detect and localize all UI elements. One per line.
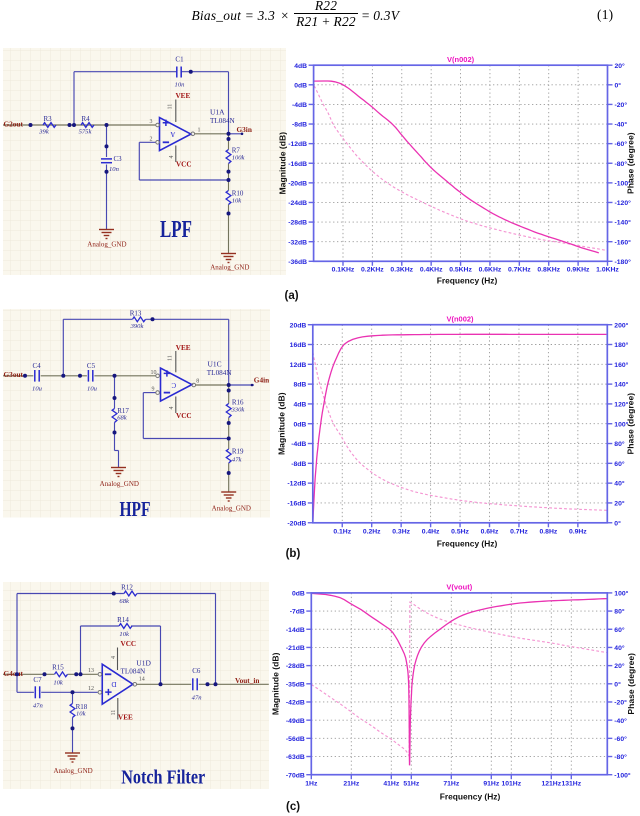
- svg-text:(c): (c): [286, 801, 300, 813]
- svg-text:131Hz: 131Hz: [561, 781, 581, 788]
- svg-text:Analog_GND: Analog_GND: [87, 240, 126, 248]
- svg-text:U1D: U1D: [136, 658, 151, 667]
- wire: R12 top feedback run: [17, 592, 124, 594]
- schematic panel (a) LPF: [3, 48, 286, 275]
- svg-text:Magnitude (dB): Magnitude (dB): [272, 652, 281, 715]
- svg-text:10u: 10u: [32, 386, 43, 393]
- resistor R13 390k: [133, 317, 146, 322]
- svg-text:101Hz: 101Hz: [501, 781, 521, 788]
- svg-text:(b): (b): [286, 548, 301, 560]
- svg-text:G2out: G2out: [4, 120, 24, 128]
- svg-text:1: 1: [197, 128, 200, 134]
- svg-text:R12: R12: [121, 583, 133, 591]
- svg-text:-63dB: -63dB: [286, 754, 305, 761]
- svg-text:0.4Hz: 0.4Hz: [422, 529, 440, 536]
- svg-text:R14: R14: [117, 616, 129, 624]
- svg-text:LPF: LPF: [160, 217, 192, 243]
- svg-text:V(n002): V(n002): [447, 55, 475, 64]
- svg-text:0.6KHz: 0.6KHz: [479, 267, 502, 274]
- bode plot (a) magnitude/phase vs frequency: [272, 52, 640, 304]
- svg-text:-4dB: -4dB: [291, 441, 306, 448]
- svg-text:20dB: 20dB: [290, 322, 307, 329]
- svg-text:-60°: -60°: [614, 735, 627, 743]
- svg-text:11: 11: [111, 709, 117, 715]
- wire: R18 branch: [72, 692, 74, 703]
- resistor R19 47k: [226, 449, 231, 463]
- svg-text:-28dB: -28dB: [288, 220, 307, 227]
- capacitor C4 10u: [34, 370, 36, 382]
- svg-text:0°: 0°: [614, 519, 621, 527]
- svg-text:40°: 40°: [614, 644, 625, 652]
- svg-text:Phase (degree): Phase (degree): [626, 393, 636, 455]
- svg-text:40°: 40°: [614, 480, 625, 488]
- svg-text:68k: 68k: [119, 598, 130, 605]
- svg-text:TL084N: TL084N: [210, 117, 236, 125]
- junction dots: [29, 123, 33, 127]
- svg-text:-16dB: -16dB: [287, 501, 306, 508]
- svg-text:-40°: -40°: [615, 121, 628, 129]
- svg-text:-100°: -100°: [614, 771, 631, 779]
- svg-text:Analog_GND: Analog_GND: [100, 480, 139, 488]
- svg-text:20°: 20°: [614, 662, 625, 670]
- svg-text:80°: 80°: [614, 440, 625, 448]
- svg-text:41Hz: 41Hz: [383, 781, 399, 788]
- svg-text:-80°: -80°: [614, 753, 627, 761]
- svg-text:0.9Hz: 0.9Hz: [569, 529, 587, 536]
- svg-text:G3in: G3in: [236, 126, 251, 134]
- svg-text:4: 4: [169, 407, 175, 410]
- wire: output divider chain: [228, 385, 230, 404]
- op-amp U1C TL084N: [161, 368, 192, 401]
- svg-text:16dB: 16dB: [290, 342, 307, 349]
- svg-text:Phase (degree): Phase (degree): [626, 653, 636, 715]
- svg-text:0.9KHz: 0.9KHz: [567, 267, 590, 274]
- svg-text:G4out: G4out: [4, 669, 24, 678]
- svg-text:Vout_in: Vout_in: [235, 676, 259, 685]
- svg-text:(a): (a): [285, 290, 299, 302]
- svg-text:Analog_GND: Analog_GND: [53, 767, 92, 775]
- svg-text:4dB: 4dB: [294, 63, 307, 70]
- pin 1 output wire: [191, 132, 195, 136]
- svg-text:VCC: VCC: [121, 639, 137, 647]
- svg-text:575k: 575k: [79, 128, 93, 135]
- resistor R7 100k: [226, 149, 231, 163]
- resistor R12 68k: [124, 591, 137, 596]
- svg-text:0.8Hz: 0.8Hz: [540, 529, 558, 536]
- svg-text:-56dB: -56dB: [286, 736, 305, 743]
- svg-text:-180°: -180°: [615, 258, 632, 266]
- capacitor C7 47n: [34, 686, 36, 698]
- pin 4 VCC: [175, 397, 177, 414]
- ground Analog_GND (R18): [65, 753, 80, 762]
- svg-text:68k: 68k: [117, 415, 128, 422]
- pin 8 output wire: [192, 383, 196, 387]
- ground Analog_GND (C3): [99, 229, 114, 238]
- bode plot (c) magnitude/phase vs frequency: [272, 580, 640, 816]
- svg-text:U1A: U1A: [210, 107, 225, 116]
- svg-text:-35dB: -35dB: [286, 681, 305, 688]
- capacitor C1 10n: [176, 66, 178, 77]
- svg-text:47n: 47n: [33, 702, 44, 709]
- svg-text:-32dB: -32dB: [288, 239, 307, 246]
- svg-text:4: 4: [169, 155, 175, 158]
- wire: riser to C1 feedback: [73, 72, 75, 125]
- svg-text:-12dB: -12dB: [288, 141, 307, 148]
- capacitor C6 47n: [192, 678, 194, 690]
- svg-text:C3: C3: [114, 155, 123, 163]
- svg-text:C4: C4: [33, 362, 42, 370]
- svg-text:G3out: G3out: [4, 370, 24, 379]
- svg-text:Notch Filter: Notch Filter: [121, 766, 205, 788]
- svg-text:C1: C1: [175, 55, 184, 63]
- equation (1): [0, 0, 640, 46]
- svg-text:60°: 60°: [614, 460, 625, 468]
- svg-text:80°: 80°: [614, 608, 625, 616]
- svg-text:10k: 10k: [76, 710, 87, 717]
- svg-text:11: 11: [167, 104, 173, 110]
- svg-text:Analog_GND: Analog_GND: [212, 505, 251, 513]
- op-amp U1D TL084N: [102, 664, 133, 704]
- schematic panel (b) HPF: [3, 309, 270, 518]
- resistor R3 39k: [43, 123, 56, 128]
- svg-text:-14dB: -14dB: [286, 627, 305, 634]
- svg-text:100k: 100k: [232, 155, 246, 162]
- svg-text:-70dB: -70dB: [286, 772, 305, 779]
- svg-text:-16dB: -16dB: [288, 161, 307, 168]
- svg-text:39k: 39k: [38, 128, 50, 135]
- svg-text:160°: 160°: [614, 361, 628, 369]
- svg-text:R7: R7: [232, 147, 241, 155]
- svg-text:0°: 0°: [614, 680, 621, 688]
- pin 4 VCC: [117, 647, 119, 670]
- svg-text:-12dB: -12dB: [287, 481, 306, 488]
- svg-text:14: 14: [139, 676, 145, 682]
- resistor R18 10k: [70, 703, 75, 717]
- svg-text:-8dB: -8dB: [291, 461, 306, 468]
- svg-text:9: 9: [152, 387, 155, 393]
- ground Analog_GND (R17): [111, 468, 126, 477]
- resistor R15 10k: [55, 671, 68, 676]
- svg-text:91Hz: 91Hz: [483, 781, 499, 788]
- svg-text:0.3Hz: 0.3Hz: [392, 529, 410, 536]
- svg-text:4: 4: [111, 656, 117, 659]
- pin 12: [98, 690, 102, 694]
- svg-text:C7: C7: [33, 676, 42, 684]
- svg-text:4dB: 4dB: [293, 402, 306, 409]
- svg-text:C5: C5: [87, 362, 96, 370]
- svg-text:HPF: HPF: [120, 497, 151, 518]
- svg-text:Magnitude (dB): Magnitude (dB): [277, 392, 287, 455]
- resistor R14 10k: [119, 623, 132, 628]
- svg-text:10n: 10n: [109, 166, 120, 173]
- svg-text:10k: 10k: [119, 631, 130, 638]
- svg-text:V(vout): V(vout): [446, 582, 472, 591]
- svg-text:-28dB: -28dB: [286, 663, 305, 670]
- svg-text:VCC: VCC: [176, 160, 192, 168]
- junction dots: [112, 591, 116, 595]
- svg-text:10u: 10u: [87, 386, 98, 393]
- pin 11 VEE: [175, 99, 177, 121]
- svg-text:10k: 10k: [232, 198, 243, 205]
- svg-text:12: 12: [88, 686, 94, 692]
- svg-text:0dB: 0dB: [294, 82, 307, 89]
- capacitor C5 10u: [87, 370, 89, 382]
- svg-text:0.5Hz: 0.5Hz: [451, 529, 469, 536]
- svg-text:-8dB: -8dB: [292, 122, 307, 129]
- svg-text:180°: 180°: [614, 341, 628, 349]
- wire: riser to R13 feedback: [62, 319, 64, 376]
- svg-text:D: D: [111, 680, 116, 688]
- svg-text:0°: 0°: [615, 81, 622, 89]
- svg-text:0.2Hz: 0.2Hz: [363, 529, 381, 536]
- svg-text:0.4KHz: 0.4KHz: [420, 267, 443, 274]
- svg-text:0dB: 0dB: [293, 421, 306, 428]
- svg-text:VEE: VEE: [175, 92, 190, 100]
- pin 11 VEE: [175, 351, 177, 372]
- svg-text:200°: 200°: [614, 321, 628, 329]
- pin 11 VEE: [117, 698, 119, 720]
- svg-text:390k: 390k: [130, 323, 145, 330]
- svg-text:47k: 47k: [232, 457, 243, 464]
- svg-text:121Hz: 121Hz: [541, 781, 561, 788]
- pin 10: [156, 374, 160, 378]
- svg-text:0.1Hz: 0.1Hz: [333, 529, 351, 536]
- svg-text:Frequency (Hz): Frequency (Hz): [440, 792, 501, 802]
- svg-text:R19: R19: [232, 448, 244, 456]
- wire: main input run G4out to pin 13: [3, 673, 54, 675]
- resistor R17 68k: [112, 409, 117, 423]
- ground Analog_GND (divider): [221, 492, 236, 501]
- svg-text:21Hz: 21Hz: [343, 781, 359, 788]
- svg-text:47n: 47n: [192, 694, 203, 701]
- svg-text:0.2KHz: 0.2KHz: [361, 267, 384, 274]
- svg-text:VEE: VEE: [118, 713, 133, 721]
- svg-text:71Hz: 71Hz: [443, 781, 459, 788]
- wire: output divider chain: [227, 134, 229, 150]
- svg-text:0.1KHz: 0.1KHz: [332, 267, 355, 274]
- pin 9 wire + feedback: [143, 392, 155, 394]
- svg-text:Frequency (Hz): Frequency (Hz): [437, 276, 498, 286]
- resistor R10 10k: [226, 190, 231, 204]
- svg-text:10k: 10k: [53, 679, 64, 686]
- bode plot (b) magnitude/phase vs frequency: [272, 310, 640, 562]
- svg-text:8: 8: [196, 379, 199, 385]
- svg-text:1.0KHz: 1.0KHz: [596, 267, 619, 274]
- svg-text:0.8KHz: 0.8KHz: [537, 267, 560, 274]
- svg-text:2: 2: [149, 136, 152, 142]
- svg-text:60°: 60°: [614, 626, 625, 634]
- svg-text:12dB: 12dB: [290, 362, 307, 369]
- svg-text:Analog_GND: Analog_GND: [210, 263, 249, 271]
- svg-text:11: 11: [167, 355, 173, 361]
- pin 13: [98, 672, 102, 676]
- svg-text:-140°: -140°: [615, 219, 632, 227]
- svg-text:8dB: 8dB: [293, 382, 306, 389]
- pin 14 output wire: [133, 682, 137, 686]
- svg-text:Phase (degree): Phase (degree): [626, 132, 636, 194]
- svg-text:V(n002): V(n002): [446, 315, 474, 324]
- resistor R16 330k: [226, 404, 231, 418]
- svg-text:A: A: [170, 130, 175, 138]
- svg-text:13: 13: [88, 668, 94, 674]
- svg-text:0.7Hz: 0.7Hz: [510, 529, 528, 536]
- pin 4 VCC: [175, 145, 177, 161]
- svg-text:R3: R3: [44, 115, 53, 123]
- svg-text:TL084N: TL084N: [207, 369, 233, 377]
- svg-text:-20°: -20°: [615, 101, 628, 109]
- svg-text:-20dB: -20dB: [288, 180, 307, 187]
- svg-text:51Hz: 51Hz: [403, 781, 419, 788]
- wire: main input run G2out to op-amp pin 3: [3, 124, 156, 126]
- svg-text:-24dB: -24dB: [288, 200, 307, 207]
- svg-text:0dB: 0dB: [292, 591, 305, 598]
- svg-text:U1C: U1C: [208, 359, 222, 368]
- svg-text:-36dB: -36dB: [288, 259, 307, 266]
- svg-text:0.5KHz: 0.5KHz: [449, 267, 472, 274]
- svg-text:20°: 20°: [614, 500, 625, 508]
- svg-text:100°: 100°: [614, 590, 628, 598]
- svg-text:-40°: -40°: [614, 717, 627, 725]
- svg-text:0.7KHz: 0.7KHz: [508, 267, 531, 274]
- svg-text:-20dB: -20dB: [287, 520, 306, 527]
- svg-text:VEE: VEE: [176, 344, 191, 352]
- capacitor C3 10n: [101, 158, 112, 160]
- svg-text:20°: 20°: [615, 62, 626, 70]
- svg-text:-120°: -120°: [615, 199, 632, 207]
- svg-text:0.3KHz: 0.3KHz: [390, 267, 413, 274]
- op-amp U1A TL084N: [159, 118, 190, 151]
- resistor R4 575k: [81, 123, 94, 128]
- svg-text:Magnitude (dB): Magnitude (dB): [278, 132, 288, 195]
- svg-text:1Hz: 1Hz: [305, 781, 318, 788]
- wire: main input run G3out to op-amp pin 10: [3, 375, 33, 377]
- svg-text:R16: R16: [232, 399, 244, 407]
- svg-text:VCC: VCC: [176, 412, 192, 420]
- svg-text:10n: 10n: [175, 81, 186, 88]
- svg-text:G4in: G4in: [254, 376, 269, 385]
- wire: R14 feedback run: [81, 625, 119, 627]
- pin 3: [156, 123, 160, 127]
- svg-text:R15: R15: [52, 663, 64, 671]
- svg-text:R10: R10: [232, 190, 244, 198]
- svg-text:-21dB: -21dB: [286, 645, 305, 652]
- svg-text:C6: C6: [192, 667, 201, 675]
- wire: R17 branch: [114, 376, 116, 409]
- svg-text:10: 10: [151, 370, 157, 376]
- svg-text:-4dB: -4dB: [292, 102, 307, 109]
- svg-text:Frequency (Hz): Frequency (Hz): [437, 539, 498, 549]
- wire: lower branch through C7 to pin 12: [17, 691, 34, 693]
- svg-text:-7dB: -7dB: [290, 609, 305, 616]
- svg-text:C: C: [171, 381, 176, 389]
- svg-text:0.6Hz: 0.6Hz: [481, 529, 499, 536]
- svg-text:140°: 140°: [614, 381, 628, 389]
- schematic panel (c) Notch Filter: [3, 582, 269, 789]
- svg-text:3: 3: [149, 119, 152, 125]
- svg-text:330k: 330k: [231, 407, 246, 414]
- svg-text:-49dB: -49dB: [286, 718, 305, 725]
- wire: C3 branch: [106, 125, 108, 157]
- svg-text:R13: R13: [130, 310, 142, 318]
- svg-text:-42dB: -42dB: [286, 700, 305, 707]
- svg-text:TL084N: TL084N: [121, 667, 147, 675]
- junction dots: [23, 374, 27, 378]
- svg-text:R4: R4: [82, 115, 91, 123]
- svg-text:-160°: -160°: [615, 238, 632, 246]
- ground Analog_GND (divider): [221, 253, 236, 262]
- pin 2 wire + feedback to divider: [139, 141, 155, 143]
